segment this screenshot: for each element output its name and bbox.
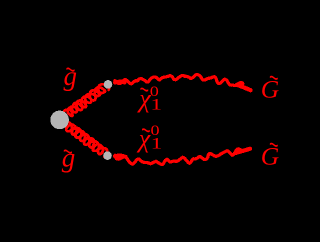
svg-text:g: g xyxy=(64,61,78,91)
wavy line start stroke top xyxy=(115,82,125,83)
production vertex blob xyxy=(50,111,69,130)
wavy line end stroke bottom xyxy=(236,149,250,153)
label neutralino chi10 top xyxy=(136,83,162,113)
wavy line start stroke bottom xyxy=(115,156,126,157)
label gluino g~ top xyxy=(64,61,78,91)
svg-text:g: g xyxy=(62,142,76,172)
label neutralino chi10 bottom xyxy=(136,122,163,153)
svg-text:χ: χ xyxy=(136,124,151,153)
gluino curly line bottom (g~ propagator) xyxy=(65,122,108,157)
wavy line end stroke top xyxy=(237,85,251,90)
label gravitino G~ bottom xyxy=(261,142,279,171)
svg-text:1: 1 xyxy=(150,96,162,114)
decay vertex blob top xyxy=(104,80,113,89)
label gluino g~ bottom xyxy=(62,142,76,172)
gravitino wavy line top (chi10 -> G~) xyxy=(115,74,243,85)
svg-text:1: 1 xyxy=(151,135,163,153)
decay vertex blob bottom xyxy=(103,151,112,160)
label gravitino G~ top xyxy=(261,75,279,104)
gravitino wavy line bottom (chi10 -> G~) xyxy=(115,149,242,165)
gluino curly line top (g~ propagator) xyxy=(63,84,109,116)
